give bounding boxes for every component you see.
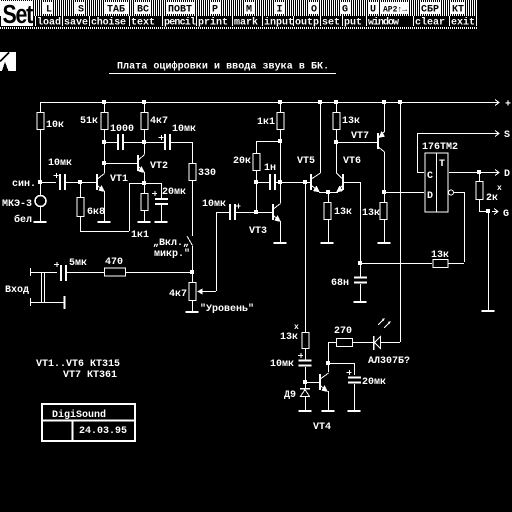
svg-text:x: x [497, 184, 502, 193]
wire switch to input node [192, 246, 194, 271]
svg-text:VT2: VT2 [150, 161, 168, 172]
wire VT7 collector down [384, 152, 386, 192]
node VT2 emitter [142, 181, 146, 185]
capacitor C5 5мк [60, 265, 62, 281]
wire C10 to ground [354, 384, 356, 410]
svg-text:330: 330 [198, 168, 216, 179]
wire rail to R10 [280, 102, 282, 112]
svg-text:1н: 1н [264, 163, 276, 174]
toolbar hotkey L [43, 2, 53, 14]
node R12/VT7 base [334, 140, 338, 144]
wire emitters join [319, 192, 338, 194]
toolbar bottom dotted row [0, 27, 477, 29]
resistor R3 51к [101, 113, 108, 130]
svg-text:син.: син. [12, 179, 36, 190]
ground G [482, 310, 495, 312]
wire C2 to VT2 collector node [124, 142, 144, 144]
capacitor C1 10мк [59, 174, 61, 190]
S output arrow [493, 131, 499, 137]
svg-text:VT6: VT6 [343, 156, 361, 167]
ground C10 [348, 410, 361, 412]
svg-text:МКЭ-3: МКЭ-3 [2, 199, 32, 210]
polarity + C10 [347, 370, 352, 375]
svg-text:Вход: Вход [5, 285, 29, 296]
svg-text:C: C [427, 171, 433, 182]
svg-text:put: put [344, 18, 362, 29]
polarity + C9 [298, 353, 303, 358]
transistor VT2 КТ315 [137, 155, 139, 171]
transistor VT5 КТ315 [310, 174, 312, 190]
toolbar stripe background [0, 0, 477, 16]
wire C pin [417, 172, 424, 174]
toolbar hotkey М [244, 2, 254, 14]
svg-text:АЛ307Б?: АЛ307Б? [368, 356, 410, 367]
chip U1 176ТМ2 box [425, 153, 448, 212]
LED VD2 АЛ307Б [373, 336, 375, 350]
node VT7 collector / R13 / D input [382, 190, 386, 194]
wire R10 to node [280, 130, 282, 141]
transistor VT3 КТ315 [272, 204, 274, 220]
wire wiper to C6 [216, 212, 229, 214]
shield end bar [64, 296, 66, 309]
resistor R10 1к1 [277, 113, 284, 130]
node VT5-base-column to R17 [305, 184, 307, 332]
svg-text:VT7 КТ361: VT7 КТ361 [63, 370, 117, 381]
ground VT1 emitter [98, 221, 111, 223]
diode VD1 Д9 [305, 384, 307, 388]
svg-text:VT1..VT6 КТ315: VT1..VT6 КТ315 [36, 359, 120, 370]
svg-text:10мк: 10мк [48, 158, 72, 169]
wire feedback up to VT2 emitter [129, 183, 131, 231]
toolbar hotkey Р [210, 2, 220, 14]
LED light arrows [378, 319, 390, 328]
svg-text:13к: 13к [280, 332, 298, 343]
rail junction x336 [334, 100, 338, 104]
wire R16 to VT4 collector [329, 343, 337, 373]
transistor VT1 КТ315 [96, 174, 98, 190]
resistor R14 13к feedback horizontal [433, 260, 448, 268]
svg-text:АР2↑→: АР2↑→ [383, 6, 407, 15]
svg-text:10мк: 10мк [202, 199, 226, 210]
wire VT4 collector node [326, 361, 330, 365]
wire VT3 emitter to ground [280, 221, 282, 242]
node G [486, 209, 490, 213]
pot wiper arrow [202, 291, 216, 293]
toolbar hotkey ПОВТ [166, 2, 194, 14]
wire S output [417, 133, 493, 135]
wire node to R13 [384, 194, 386, 202]
wire input top [30, 272, 57, 274]
wire node to pot [192, 274, 194, 282]
svg-text:микр.": микр." [154, 248, 190, 260]
toolbar hotkey O [309, 2, 319, 14]
wire node to R9 [256, 141, 280, 143]
polarity + C6 [236, 204, 241, 209]
wire VT1 node to VT2 base [104, 163, 137, 165]
wire C5 to R7 [67, 272, 104, 274]
chip divider [436, 153, 438, 212]
svg-text:input: input [264, 17, 294, 29]
wire rail to R4 [144, 102, 146, 112]
svg-text:L: L [46, 5, 52, 16]
node VT2 collector [142, 140, 146, 144]
svg-text:470: 470 [105, 257, 123, 268]
wire +supply rail [40, 102, 497, 104]
potentiometer R8 4к7 Уровень [189, 283, 196, 301]
svg-text:S: S [78, 5, 84, 16]
wire R13 to ground [384, 220, 386, 242]
wire rail to R3 [104, 102, 106, 112]
wire R7 to input node [126, 272, 192, 274]
wire node to R5 [144, 185, 146, 193]
wire R17 to C9 [305, 349, 307, 360]
svg-text:Р: Р [212, 5, 218, 16]
svg-text:VT1: VT1 [110, 174, 128, 185]
node input/pot [190, 270, 194, 274]
wire node to mic [40, 184, 42, 196]
node emitters [326, 190, 330, 194]
svg-text:СБР: СБР [421, 5, 439, 16]
resistor R4 4к7 [141, 113, 148, 130]
resistor R16 270 horizontal [337, 339, 353, 347]
wire VT7 emitter to rail [384, 102, 386, 132]
wire base node to VT4 [305, 382, 319, 384]
page mark icon [0, 52, 16, 71]
rail junction x400 [398, 100, 402, 104]
ground VT4 [322, 410, 335, 412]
svg-text:+: + [505, 100, 511, 111]
resistor R13 13к VT7 load [380, 203, 387, 220]
svg-text:1к1: 1к1 [257, 117, 275, 128]
wire R15 to G node [480, 200, 489, 212]
wire VT4 emitter to ground [328, 391, 330, 410]
node mic син. [38, 180, 42, 184]
rail junction x280 [278, 100, 282, 104]
chip inverted output bubble [449, 190, 454, 195]
svg-text:6к8: 6к8 [87, 207, 105, 218]
ground mic [34, 221, 47, 223]
transistor VT6 КТ315 mirrored [342, 174, 344, 190]
wire R11 to ground [328, 220, 330, 242]
toolbar hotkey ТАБ [104, 2, 128, 14]
resistor R15 2к [476, 182, 483, 200]
ground R11 [321, 242, 334, 244]
svg-text:КТ: КТ [452, 5, 464, 16]
ground R13 [378, 242, 391, 244]
svg-text:1000: 1000 [110, 124, 134, 135]
toolbar hotkey G [340, 2, 350, 14]
wire node to VT7 base [336, 142, 377, 144]
node base VT1 / R2 [78, 180, 82, 184]
toolbar hotkey S [75, 2, 85, 14]
DigiSound table divider [42, 420, 135, 422]
svg-text:"Уровень": "Уровень" [200, 303, 254, 315]
wire collector node to C10 [330, 364, 355, 376]
capacitor C9 10мк [299, 360, 312, 362]
wire node down to VT3 collector [280, 141, 282, 203]
transistor VT7 КТ361 [377, 133, 379, 149]
wire VT1 emitter to ground [104, 191, 106, 221]
toolbar hotkey U [368, 2, 378, 14]
svg-text:DigiSound: DigiSound [52, 409, 106, 421]
wire R14 to 68н node [360, 263, 432, 265]
svg-text:S: S [504, 130, 510, 141]
svg-text:20к: 20к [233, 156, 251, 167]
wire R4 to VT2 collector node [144, 130, 146, 142]
wire mic node to C1 [40, 182, 56, 184]
svg-text:13к: 13к [362, 208, 380, 219]
capacitor C8 68н [360, 263, 362, 277]
wire C3 to R6 [171, 143, 193, 164]
D output arrow [493, 170, 499, 176]
svg-text:20мк: 20мк [162, 187, 186, 198]
toolbar hotkey АР2↑→ [381, 2, 409, 14]
wire R1 to mic node [40, 130, 42, 180]
svg-text:print: print [198, 17, 228, 29]
svg-text:Д9: Д9 [284, 390, 296, 401]
svg-text:window: window [368, 17, 399, 29]
wire VT2 collector [144, 142, 146, 154]
svg-text:Плата оцифровки и ввода звука: Плата оцифровки и ввода звука в БК. [117, 60, 329, 73]
node Q/2к [477, 170, 481, 174]
resistor R6 330 [189, 164, 196, 181]
DigiSound table frame [42, 404, 135, 441]
microphone BM1 МКЭ-3 [35, 196, 46, 207]
node VT4 base [303, 380, 307, 384]
svg-text:4к7: 4к7 [169, 289, 187, 300]
wire C6 to VT3 base [236, 212, 272, 214]
svg-text:176ТМ2: 176ТМ2 [422, 142, 458, 153]
input pin tick bottom [30, 298, 32, 306]
toolbar button separators [35, 16, 37, 26]
svg-text:4к7: 4к7 [150, 116, 168, 127]
resistor R5 1к1 [141, 194, 148, 211]
svg-text:O: O [311, 5, 317, 16]
input pin tick top [30, 268, 32, 276]
toolbar label strip [34, 16, 477, 26]
polarity + C5 [54, 262, 59, 267]
svg-text:load: load [37, 17, 61, 29]
svg-text:VT5: VT5 [297, 156, 315, 167]
svg-text:ВС: ВС [137, 5, 149, 16]
svg-text:5мк: 5мк [69, 258, 87, 269]
rail junction x384 [382, 100, 386, 104]
node 68н [358, 261, 362, 265]
wire node to R11 [328, 192, 330, 202]
svg-text:24.03.95: 24.03.95 [79, 426, 127, 437]
wire LED column to LED [381, 342, 400, 344]
ground VD1 [299, 410, 312, 412]
capacitor C4 20мк [161, 183, 163, 198]
G output arrow [492, 209, 498, 215]
node VT3 base [254, 210, 258, 214]
capacitor C6 10мк [229, 204, 231, 220]
resistor R9 20к [253, 154, 260, 171]
svg-text:set: set [322, 18, 340, 29]
wire mic to ground [40, 207, 42, 221]
node C7 tap [254, 180, 258, 184]
wire base node to C7 [256, 182, 269, 184]
svg-text:G: G [342, 5, 348, 16]
svg-text:text: text [131, 18, 155, 29]
svg-text:x: x [294, 323, 299, 332]
wire S line riser [417, 133, 419, 172]
resistor R2 6к8 [77, 198, 84, 217]
ground VT3 [274, 242, 287, 244]
svg-text:outp: outp [295, 18, 319, 29]
svg-text:270: 270 [334, 326, 352, 337]
wire emitter node to C4 [144, 183, 161, 185]
transistor VT4 КТ315 [319, 374, 321, 390]
resistor R7 470 horizontal [105, 268, 126, 276]
wire rail to R1 [40, 102, 42, 112]
switch SA1 contact [187, 236, 193, 246]
wire VT5 collector to rail [320, 102, 322, 173]
svg-text:VT3: VT3 [249, 226, 267, 237]
svg-text:choise: choise [91, 17, 126, 29]
wire G node to ground [488, 213, 490, 310]
wire 51к to VT1 collector node [104, 130, 106, 142]
capacitor C2 1000 [117, 134, 119, 150]
svg-text:М: М [246, 5, 252, 16]
svg-text:10мк: 10мк [270, 359, 294, 370]
svg-text:exit: exit [451, 17, 475, 29]
wire pot to ground [192, 301, 194, 311]
svg-text:mark: mark [234, 17, 258, 29]
svg-text:13к: 13к [334, 207, 352, 218]
toolbar hotkey I [274, 2, 284, 14]
resistor R12 13к VT6 load [333, 113, 340, 130]
svg-text:13к: 13к [342, 116, 360, 127]
toolbar hotkey СБР [420, 2, 441, 14]
wire C9 to VT4 base node [305, 367, 307, 381]
wire VT2 collector to C3 [144, 142, 164, 144]
capacitor C7 1н [269, 174, 271, 190]
wire rail to R12 [336, 102, 338, 112]
wire R5 to ground [144, 211, 146, 221]
polarity + C3 [159, 135, 164, 140]
resistor R1 10к [37, 113, 44, 130]
ground pot [186, 311, 199, 313]
node VT1 collector / C2 [102, 140, 106, 144]
svg-text:Set: Set [3, 0, 34, 30]
wire R9 to base node [256, 171, 258, 212]
wire R6 to switch [192, 181, 194, 236]
wire Q output [449, 172, 493, 174]
node VT5 base column [303, 180, 307, 184]
wire VT1 collector to node [104, 142, 106, 173]
wire R12 to node [336, 130, 338, 142]
svg-text:10мк: 10мк [172, 124, 196, 135]
wire LED to R16 [352, 342, 373, 344]
svg-text:20мк: 20мк [362, 377, 386, 388]
svg-text:VT7: VT7 [351, 131, 369, 142]
wire VT2 emitter to node [144, 172, 146, 183]
svg-text:68н: 68н [331, 278, 349, 289]
node R10/R9 [278, 139, 282, 143]
svg-text:clear: clear [415, 17, 445, 29]
wire R2 to feedback run [81, 217, 130, 232]
wire VT6 collector [336, 142, 338, 173]
svg-text:„Вкл.„: „Вкл.„ [153, 238, 189, 249]
wire node to C2 [104, 142, 117, 144]
ground R5 [138, 221, 151, 223]
DigiSound table vertical divider [72, 420, 74, 441]
wire Qbar to feedback corner [454, 193, 465, 263]
supply output arrow + [493, 100, 499, 106]
svg-text:ТАБ: ТАБ [107, 5, 125, 16]
rail junction x320 [318, 100, 322, 104]
svg-text:ПОВТ: ПОВТ [168, 5, 192, 16]
node VT3 collector [278, 180, 282, 184]
svg-text:бел: бел [14, 213, 32, 226]
polarity + C1 [54, 173, 59, 178]
capacitor C10 20мк [348, 377, 361, 379]
capacitor C3 10мк [164, 134, 166, 150]
resistor R17 13к x [302, 333, 309, 349]
svg-text:U: U [370, 5, 376, 16]
wire R9 column [256, 142, 258, 154]
wire feedback down-left [448, 263, 464, 265]
connector bars [41, 273, 43, 303]
toolbar hotkey КТ [450, 2, 465, 14]
node VT1 collector / VT2 base wire [102, 161, 106, 165]
svg-text:D: D [504, 169, 510, 180]
wire wiper riser [216, 212, 218, 291]
wire C1 to VT1 base [66, 182, 96, 184]
wire input shield [30, 302, 64, 304]
svg-text:D: D [427, 191, 433, 202]
wire C7 to VT3 collector node [276, 182, 310, 184]
wire rail to LED column [400, 102, 402, 342]
wire Q node to R15 [479, 174, 481, 181]
svg-text:T: T [439, 159, 445, 170]
Set logo box [1, 1, 33, 26]
svg-text:VT4: VT4 [313, 422, 331, 433]
ground C8 [354, 301, 367, 303]
rail junction x144 [142, 100, 146, 104]
title underline [109, 73, 336, 75]
svg-text:I: I [277, 5, 283, 16]
svg-text:G: G [503, 209, 509, 220]
svg-text:10к: 10к [46, 120, 64, 131]
svg-text:51к: 51к [80, 116, 98, 127]
ground C4 [155, 221, 168, 223]
svg-text:pencil: pencil [164, 17, 196, 29]
svg-text:13к: 13к [431, 250, 449, 261]
wire node to R2 [80, 184, 82, 197]
toolbar hotkey ВС [135, 2, 151, 14]
svg-text:save: save [64, 18, 88, 29]
wire VT6 base to feedback [344, 183, 361, 263]
svg-text:2к: 2к [486, 193, 498, 204]
resistor R11 13к emitters [324, 203, 331, 220]
rail junction x104 [102, 100, 106, 104]
wire D input to chip [384, 192, 424, 194]
svg-text:1к1: 1к1 [131, 230, 149, 241]
